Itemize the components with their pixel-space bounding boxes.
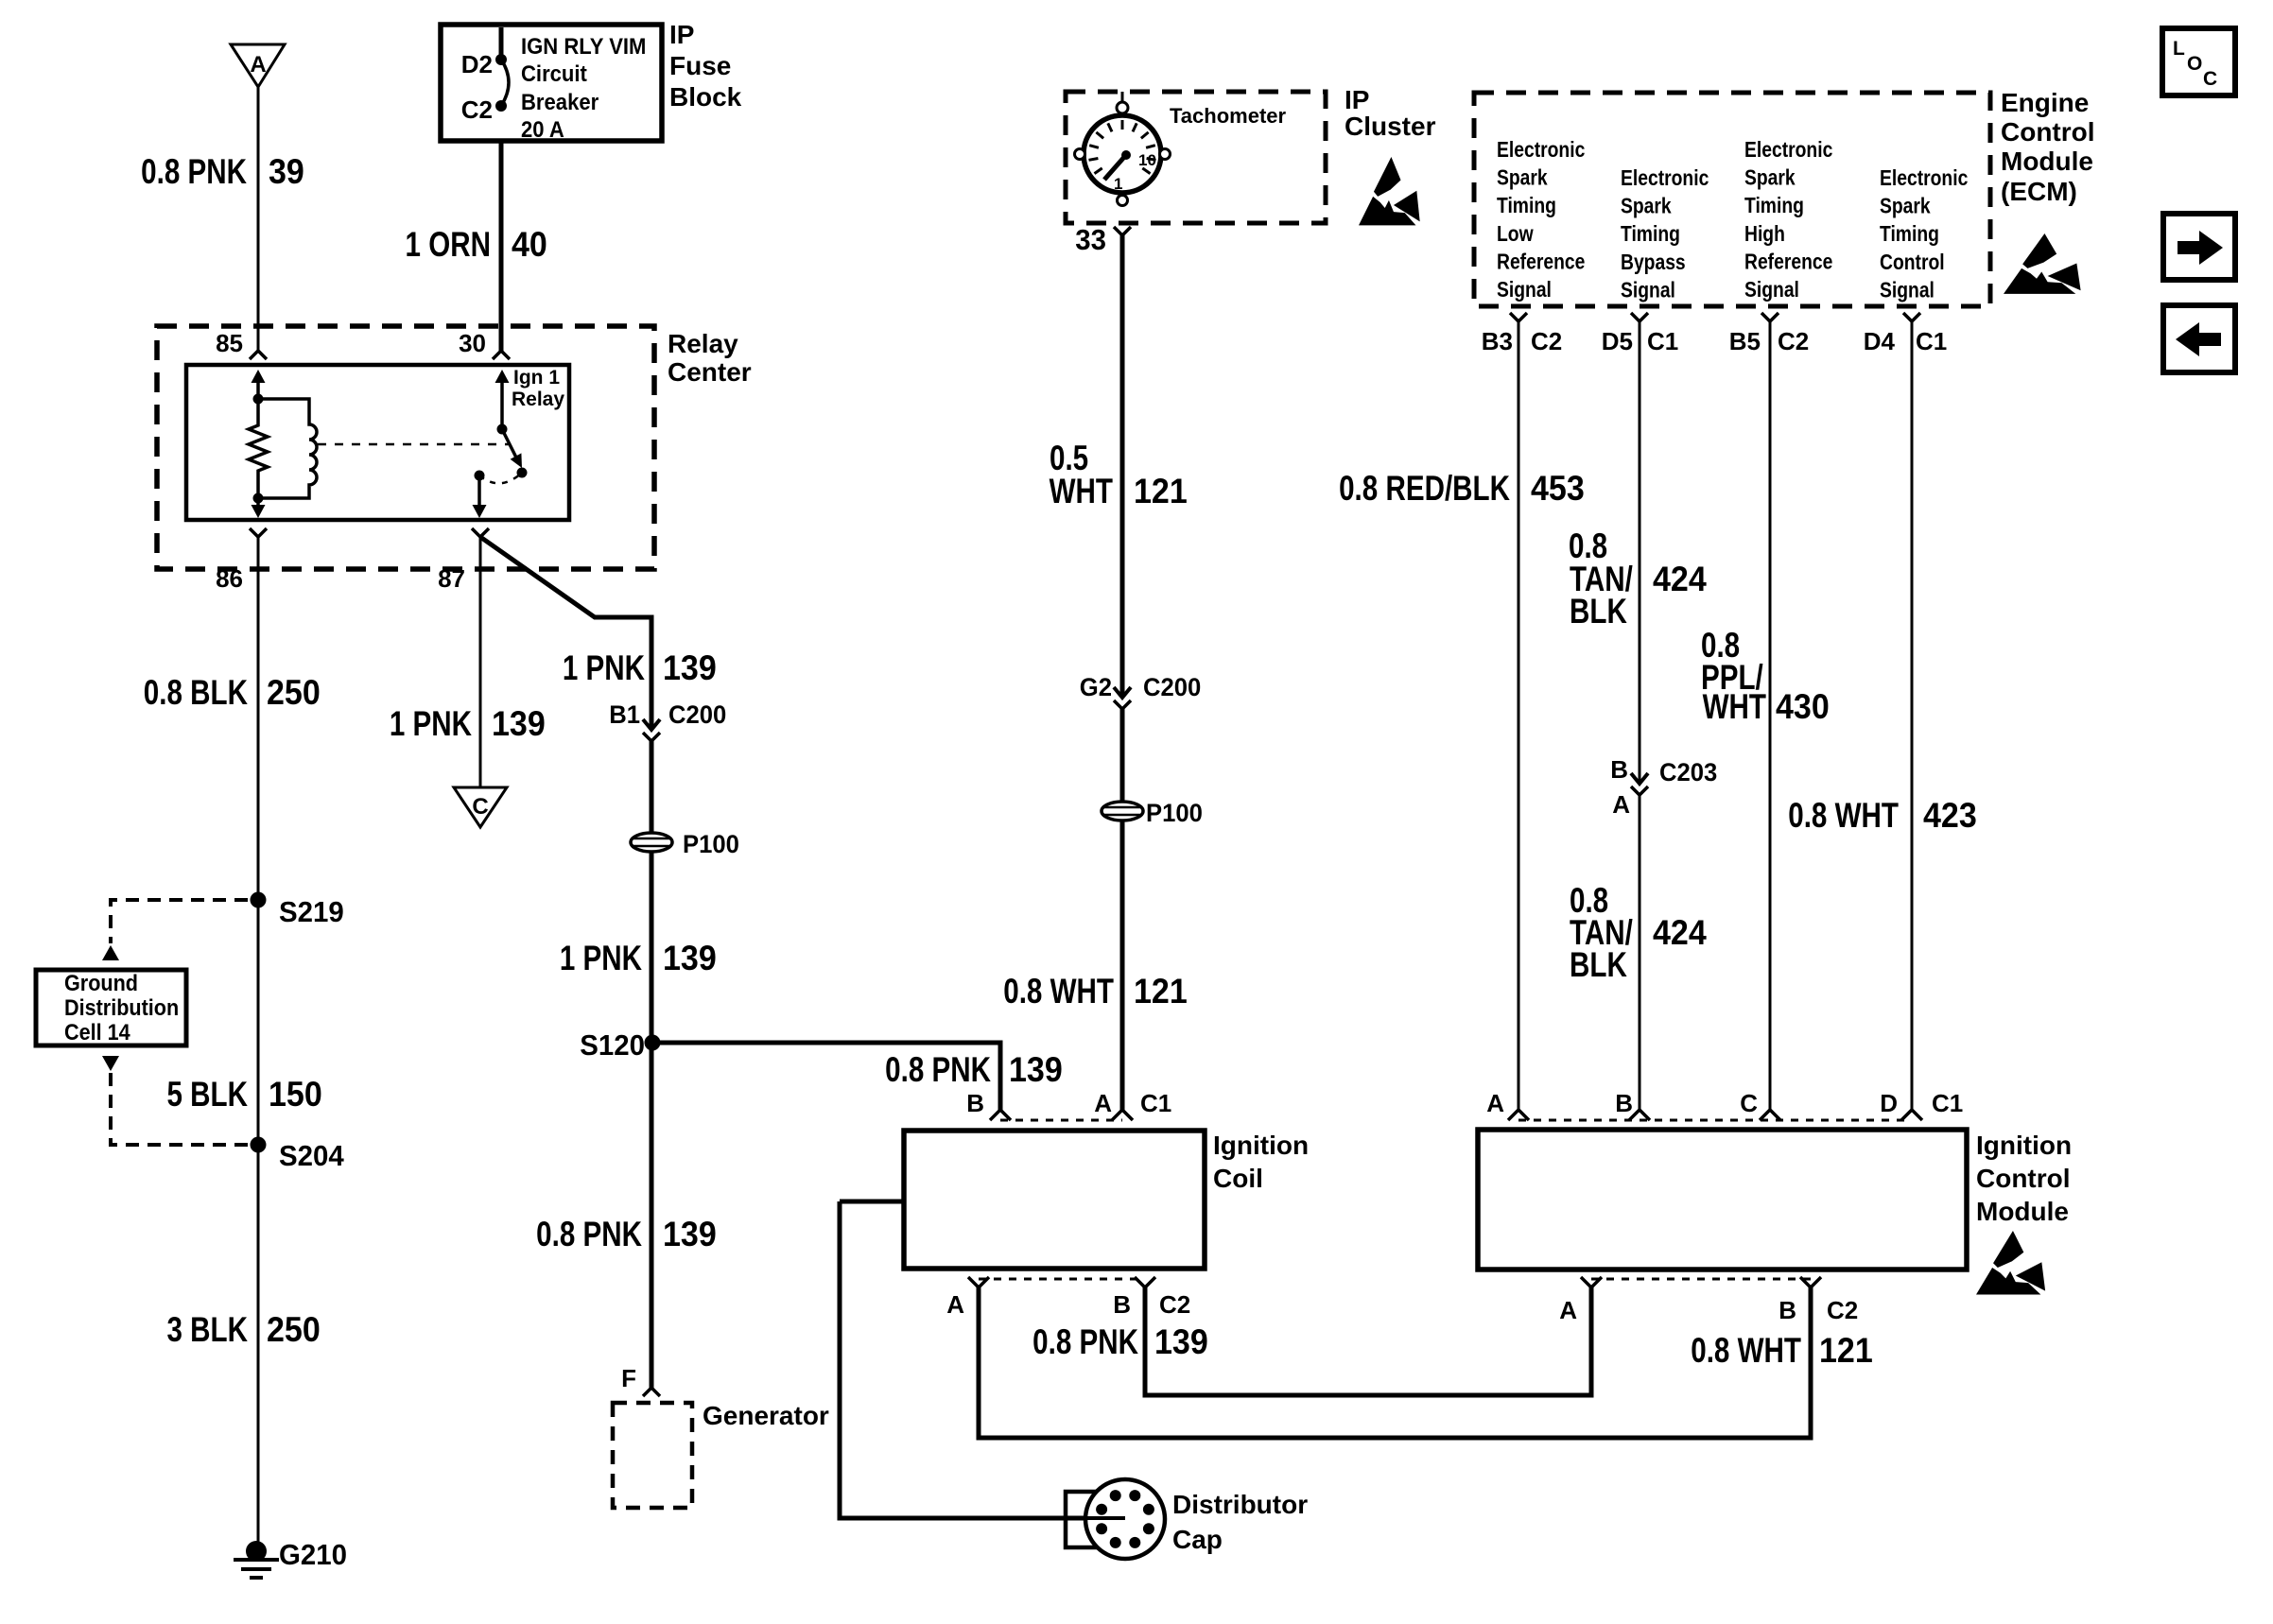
svg-text:Bypass: Bypass [1621,251,1686,274]
svg-text:30: 30 [459,329,486,357]
svg-text:Fuse: Fuse [669,51,731,80]
esd symbol ICM [1976,1231,2045,1294]
wire C200 to P100 tach [1120,709,1125,802]
svg-text:453: 453 [1531,469,1585,509]
coil top pin dashed row [1000,1119,1122,1122]
svg-text:Block: Block [669,82,742,112]
tachometer gauge circle [1084,115,1161,193]
ECM pin D4 fork [1903,313,1920,321]
svg-text:BLK: BLK [1570,593,1627,631]
wire ECM B3 to ICM A [1518,321,1520,1110]
svg-text:Spark: Spark [1880,195,1931,218]
svg-text:Spark: Spark [1744,166,1796,190]
svg-text:Relay: Relay [512,389,564,410]
svg-text:Ign 1: Ign 1 [513,367,560,389]
svg-text:C200: C200 [668,700,726,729]
svg-text:85: 85 [216,329,243,357]
ICM bottom pin dashed row [1591,1278,1811,1281]
svg-text:139: 139 [663,648,717,688]
wire coil B to ICM A [1145,1287,1591,1395]
relay switch arrow pin30 [500,381,504,429]
coil bottom pin B fork [1135,1277,1155,1287]
svg-text:139: 139 [663,939,717,978]
coil pin B fork [990,1110,1011,1120]
svg-text:High: High [1744,222,1785,246]
svg-text:Signal: Signal [1621,279,1675,302]
svg-text:A: A [1094,1089,1112,1117]
IP Cluster dashed box [1066,92,1326,223]
svg-text:G210: G210 [279,1539,347,1571]
wire 87 diagonal to PNK bus [480,537,651,729]
Ground Distribution Cell 14 box [36,970,186,1045]
svg-text:Electronic: Electronic [1744,139,1832,163]
svg-text:139: 139 [492,704,546,744]
svg-text:121: 121 [1134,472,1188,511]
svg-text:250: 250 [267,673,321,713]
pin 30 fork [493,351,510,359]
svg-text:430: 430 [1776,687,1830,727]
svg-text:WHT: WHT [1050,473,1114,511]
svg-text:139: 139 [1154,1322,1208,1362]
svg-text:A: A [1486,1089,1504,1117]
Ign 1 Relay box [186,365,569,520]
Relay Center dashed box [157,326,654,569]
Ignition Coil box [904,1131,1205,1269]
svg-text:0.8 PNK: 0.8 PNK [1032,1323,1138,1362]
wire 86 to S219 [257,537,260,900]
svg-text:IP: IP [1345,85,1369,114]
svg-text:C1: C1 [1647,327,1678,355]
svg-text:IGN RLY VIM: IGN RLY VIM [521,33,646,59]
svg-text:1 PNK: 1 PNK [390,705,472,744]
wire S204 to G210 [257,1145,260,1544]
wire S120 to coil pin B [652,1043,1000,1110]
svg-text:1 PNK: 1 PNK [560,940,642,978]
svg-text:C1: C1 [1916,327,1947,355]
wire C200 to P100 [650,741,654,833]
svg-text:0.8 BLK: 0.8 BLK [144,674,248,713]
fuse block internal wire top [499,27,504,60]
relay resistor [249,399,268,498]
svg-text:Generator: Generator [703,1401,829,1430]
circuit breaker D2 dot [495,54,507,65]
svg-text:Timing: Timing [1744,195,1804,218]
svg-text:O: O [2187,53,2202,75]
svg-text:Timing: Timing [1880,223,1939,247]
tachometer pin 33 fork [1114,227,1131,235]
coil bottom pin A fork [968,1277,989,1287]
tachometer top stub [1121,92,1124,102]
svg-text:Engine: Engine [2001,88,2089,117]
arrow left box [2163,305,2235,372]
svg-text:Signal: Signal [1880,279,1935,302]
svg-text:B1: B1 [609,700,640,729]
wire S219 to S204 [257,900,260,1145]
svg-text:139: 139 [663,1215,717,1254]
svg-text:S204: S204 [279,1140,344,1172]
relay contact dot 87a [517,468,528,478]
power feed triangle C [454,787,507,827]
svg-text:Low: Low [1497,222,1534,246]
svg-text:139: 139 [1009,1050,1063,1090]
generator pin F fork [643,1388,660,1396]
Generator dashed box [613,1403,692,1508]
ground link arrow up [102,945,119,960]
svg-text:C2: C2 [1159,1290,1190,1319]
svg-text:10: 10 [1138,151,1156,169]
splice dot S219 [251,892,267,908]
svg-text:P100: P100 [1146,798,1203,827]
svg-text:424: 424 [1653,560,1707,599]
svg-text:0.8 PNK: 0.8 PNK [885,1051,991,1090]
pin 87 fork [472,528,489,537]
ICM pin A fork [1508,1110,1529,1120]
svg-text:B: B [1113,1290,1131,1319]
svg-text:L: L [2173,38,2185,60]
svg-text:B5: B5 [1729,327,1761,355]
connector C200 B1 symbol [643,719,660,730]
svg-text:250: 250 [267,1310,321,1350]
svg-text:C1: C1 [1932,1089,1963,1117]
coil bottom pin dashed row [979,1278,1145,1281]
pass-through grommet P100 left [631,833,672,852]
svg-text:5 BLK: 5 BLK [166,1076,248,1114]
tachometer side terminals [1075,149,1085,160]
svg-text:150: 150 [269,1075,322,1114]
ICM bottom pin B fork [1800,1277,1821,1287]
svg-text:B3: B3 [1482,327,1513,355]
relay coil inductor [258,399,317,498]
coil left stub wire [840,1200,904,1204]
distributor feed wire inside cap [1085,1516,1125,1520]
svg-text:3 BLK: 3 BLK [166,1311,248,1350]
svg-text:423: 423 [1923,796,1977,836]
svg-text:0.8 PNK: 0.8 PNK [536,1216,642,1254]
ground link arrow down [102,1056,119,1071]
esd symbol IP Cluster [1359,157,1420,225]
svg-text:Distribution: Distribution [64,994,179,1020]
ICM pin D fork [1901,1110,1922,1120]
svg-text:86: 86 [216,564,243,593]
LOC reference box [2162,28,2235,95]
distributor square [1066,1492,1102,1547]
svg-text:Signal: Signal [1744,279,1799,302]
relay contact dot 87 [475,471,485,481]
svg-text:Signal: Signal [1497,279,1552,302]
svg-text:Cell 14: Cell 14 [64,1019,130,1045]
svg-text:F: F [621,1364,636,1392]
wire ECM B5 to ICM C [1769,321,1772,1110]
svg-text:D2: D2 [461,50,493,78]
svg-text:S219: S219 [279,896,344,928]
relay switch blade [502,429,516,458]
svg-text:0.8 PNK: 0.8 PNK [141,153,247,192]
svg-text:Cluster: Cluster [1345,112,1436,141]
splice dot S204 [251,1137,267,1153]
svg-text:Spark: Spark [1621,195,1672,218]
wire A to relay pin 85 [257,87,260,351]
ECM pin B5 fork [1761,313,1778,321]
relay switch arrow pin87 [477,475,481,507]
svg-text:40: 40 [512,225,547,265]
svg-text:39: 39 [269,152,304,192]
connector C203 symbol [1631,773,1648,784]
relay switch pivot dot [497,424,508,435]
svg-text:0.8 RED/BLK: 0.8 RED/BLK [1339,470,1510,509]
svg-text:Cap: Cap [1172,1525,1223,1554]
svg-text:Electronic: Electronic [1880,167,1968,191]
svg-text:C: C [1740,1089,1758,1117]
svg-text:A: A [250,52,266,78]
svg-text:A: A [1559,1296,1577,1324]
svg-text:C: C [2203,68,2217,90]
svg-text:A: A [1612,790,1630,819]
wire ECM D5 to C203 [1639,321,1641,783]
svg-text:Reference: Reference [1497,251,1586,274]
svg-text:20 A: 20 A [521,116,564,142]
svg-text:33: 33 [1075,224,1106,256]
relay node dot top [253,394,264,405]
svg-text:Spark: Spark [1497,166,1548,190]
ground distribution dashed link top [111,900,248,943]
svg-text:WHT: WHT [1703,688,1767,727]
svg-text:Ground: Ground [64,970,138,995]
svg-text:(ECM): (ECM) [2001,177,2077,206]
circuit breaker arc [501,60,509,106]
svg-text:Timing: Timing [1621,223,1680,247]
tachometer needle [1104,156,1125,180]
wire C203 to ICM B [1639,795,1641,1110]
svg-text:Electronic: Electronic [1621,167,1709,191]
svg-text:Coil: Coil [1213,1164,1263,1193]
svg-text:C2: C2 [1778,327,1809,355]
svg-text:Breaker: Breaker [521,89,599,114]
wire ECM D4 to ICM D [1911,321,1914,1110]
wire fuse block to relay pin 30 [499,141,504,351]
svg-text:Electronic: Electronic [1497,139,1585,163]
svg-text:Tachometer: Tachometer [1170,104,1287,128]
ECM pin D5 fork [1631,313,1648,321]
svg-text:Relay: Relay [668,329,738,358]
relay coil arrow pin86 [256,498,260,507]
svg-text:C203: C203 [1659,757,1717,786]
svg-text:C2: C2 [1531,327,1562,355]
svg-text:D4: D4 [1864,327,1896,355]
ground symbol G210 [246,1541,267,1562]
svg-text:D: D [1880,1089,1898,1117]
wire 87 to triangle C [479,537,482,787]
tachometer tick marks [1095,168,1102,174]
relay coil arrow pin85 [256,381,260,399]
svg-text:IP: IP [669,20,694,49]
svg-text:87: 87 [438,564,465,593]
wire 33 to C200 [1120,235,1125,697]
pin 85 fork [250,351,267,359]
ground distribution dashed link bottom [111,1073,248,1145]
svg-text:Control: Control [2001,117,2095,147]
svg-text:A: A [946,1290,964,1319]
wire coil A to ICM B [979,1287,1811,1438]
svg-text:BLK: BLK [1570,946,1627,985]
relay node dot bottom [253,493,264,504]
distributor cap terminal dots [1143,1523,1154,1534]
connector C200 G2 symbol [1114,687,1131,698]
svg-text:C: C [472,794,488,820]
svg-text:1 ORN: 1 ORN [406,226,491,265]
svg-text:Distributor: Distributor [1172,1490,1308,1519]
IP Fuse Block box [441,25,662,141]
svg-text:S120: S120 [580,1029,645,1062]
svg-text:C2: C2 [461,95,493,124]
svg-text:Ignition: Ignition [1213,1131,1309,1160]
svg-text:Control: Control [1880,251,1945,274]
Ignition Control Module box [1478,1130,1967,1270]
wire coil stub to distributor [840,1201,1123,1518]
svg-text:121: 121 [1134,972,1188,1011]
svg-text:Reference: Reference [1744,251,1833,274]
svg-text:0.8 WHT: 0.8 WHT [1788,797,1899,836]
svg-text:Module: Module [2001,147,2093,176]
relay actuation dashed link [318,443,511,446]
pass-through grommet P100 tach [1102,802,1143,821]
svg-text:Control: Control [1976,1164,2071,1193]
arrow right box [2163,214,2235,280]
splice dot S120 [645,1035,661,1051]
svg-text:C200: C200 [1143,672,1201,701]
wire P100 to S120 to F [650,852,654,1388]
ICM top pin dashed row [1518,1119,1912,1122]
svg-text:424: 424 [1653,913,1707,953]
esd symbol ECM [2004,233,2081,294]
svg-text:121: 121 [1819,1331,1873,1371]
Engine Control Module dashed box [1474,93,1990,306]
svg-text:1: 1 [1114,175,1122,193]
svg-text:B: B [1778,1296,1796,1324]
svg-text:0.8 WHT: 0.8 WHT [1003,973,1114,1011]
relay switch travel dashed arc [479,473,522,483]
ICM pin C fork [1760,1110,1780,1120]
svg-text:1 PNK: 1 PNK [563,649,645,688]
svg-text:B: B [1610,755,1628,784]
svg-text:Module: Module [1976,1197,2069,1226]
svg-text:Circuit: Circuit [521,60,587,86]
distributor cap circle [1085,1479,1165,1559]
ICM bottom pin A fork [1581,1277,1602,1287]
ECM pin B3 fork [1510,313,1527,321]
wire P100 to coil pin A [1120,821,1125,1110]
svg-text:D5: D5 [1602,327,1633,355]
svg-text:P100: P100 [683,829,739,858]
pin 86 fork [250,528,267,537]
svg-text:0.8 WHT: 0.8 WHT [1691,1332,1801,1371]
svg-text:Ignition: Ignition [1976,1131,2072,1160]
coil pin A fork [1112,1110,1133,1120]
circuit breaker C2 dot [495,100,507,112]
svg-text:B: B [1615,1089,1633,1117]
ICM pin B fork [1629,1110,1650,1120]
svg-text:C1: C1 [1140,1089,1171,1117]
power feed triangle A [231,44,285,87]
svg-text:Center: Center [668,357,752,387]
svg-text:C2: C2 [1827,1296,1858,1324]
svg-text:Timing: Timing [1497,195,1556,218]
svg-text:G2: G2 [1080,672,1112,701]
svg-text:B: B [966,1089,984,1117]
